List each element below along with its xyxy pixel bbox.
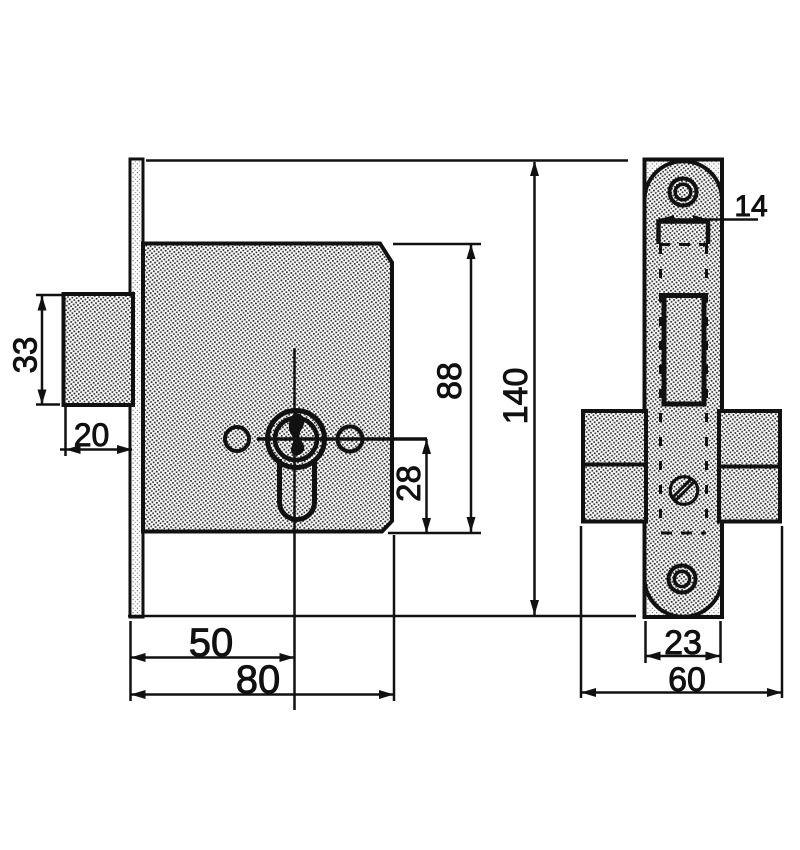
svg-text:50: 50: [189, 621, 234, 665]
svg-text:88: 88: [431, 362, 469, 400]
centerline horizontal: [257, 437, 427, 441]
dimension 60: [581, 526, 782, 699]
svg-text:140: 140: [497, 368, 535, 425]
dimension 14: [659, 190, 768, 224]
keyhole cylinder outer circle: [268, 411, 325, 468]
follower cutout rectangle: [664, 296, 704, 405]
dimension 50: [131, 621, 295, 665]
centerline vertical: [293, 348, 296, 710]
bolt (side view): [64, 294, 134, 405]
dimension 23: [646, 621, 721, 663]
dimension 28: [390, 439, 431, 533]
left fixing hole: [225, 427, 249, 451]
hidden mortise outline dashed right: [705, 245, 708, 533]
top screw hole: [670, 179, 697, 206]
faceplate side view: [130, 159, 143, 617]
svg-text:33: 33: [7, 337, 44, 374]
dimension 88: [388, 244, 481, 533]
right fixing hole: [338, 427, 363, 452]
dimension 33: [7, 295, 63, 405]
lock body: [143, 244, 392, 532]
bolt front view left block: [583, 411, 646, 522]
dimension 140: [128, 161, 636, 617]
faceplate front view: [645, 160, 723, 618]
svg-text:20: 20: [74, 417, 110, 453]
keyhole cylinder inner circle: [275, 418, 317, 460]
extension line body right: [393, 535, 396, 701]
svg-text:60: 60: [668, 661, 706, 699]
bottom screw hole: [669, 566, 696, 593]
svg-text:14: 14: [734, 190, 767, 223]
hidden mortise outline dashed left: [659, 245, 662, 533]
middle screw: [670, 477, 698, 505]
svg-text:23: 23: [664, 624, 702, 662]
svg-text:28: 28: [390, 465, 427, 502]
svg-text:80: 80: [236, 658, 281, 702]
dimension 80: [131, 658, 395, 702]
bolt slot in faceplate: [659, 222, 709, 245]
dimension 20: [60, 407, 132, 456]
hidden mortise outline dashed bottom: [661, 532, 706, 535]
key silhouette: [289, 413, 304, 455]
bolt front view right block: [719, 411, 780, 522]
keyhole slot: [280, 459, 315, 519]
extension line bottom-left: [129, 621, 132, 701]
